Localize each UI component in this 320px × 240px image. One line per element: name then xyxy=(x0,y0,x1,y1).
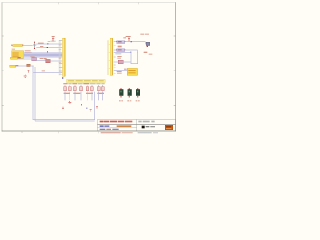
fuse F3 body xyxy=(10,65,16,67)
transistor T1 body xyxy=(119,89,123,95)
net band inner text 1 xyxy=(68,80,74,81)
RN4 pin stub up a xyxy=(97,85,100,87)
fuse F1 pin tick left xyxy=(10,45,13,46)
label Q1 value2 xyxy=(149,53,153,54)
transistor T3 top tick xyxy=(137,88,138,89)
cadsoft text b xyxy=(150,126,155,127)
wire RN1 down b xyxy=(68,91,71,100)
gnd GND4 stem xyxy=(62,107,65,108)
switch S1 stem xyxy=(33,42,36,48)
net names text segment 6 xyxy=(90,83,96,84)
relay K2 stripe 2 xyxy=(128,72,135,73)
ic U1 pin stub 5 xyxy=(59,73,62,76)
supply VCC1 text xyxy=(52,36,55,37)
pin number fleck U2 d xyxy=(108,67,111,70)
label D2 name line1 xyxy=(117,56,122,57)
label F3 value xyxy=(16,65,19,66)
pin label fleck U1 c xyxy=(59,57,62,60)
transistor T2 body xyxy=(128,89,132,95)
wire R2 vertical drop xyxy=(136,49,139,52)
RN3 pin stub up b xyxy=(91,85,94,87)
fuse F1 body xyxy=(12,44,23,46)
label T1 b xyxy=(121,100,123,101)
eagle logo orange box xyxy=(165,125,173,130)
net band inner text 3 xyxy=(84,80,90,81)
gnd GND1 bar xyxy=(27,69,29,72)
wire row B to U1 xyxy=(36,46,62,49)
diode D2 body xyxy=(118,60,123,64)
title block divider v xyxy=(135,119,138,131)
transistor T3 pin dot xyxy=(137,96,138,97)
cadsoft text a xyxy=(145,126,149,127)
docfield text row3 b xyxy=(106,128,111,130)
RN1 pin stub up a xyxy=(64,85,67,87)
junction dot mid bottom 2 xyxy=(86,107,87,108)
label RN4 xyxy=(97,93,104,94)
eagle logo light mark xyxy=(166,127,171,130)
ic U1 pin stub 4 xyxy=(59,70,62,73)
frame tick top 2 xyxy=(97,2,100,4)
wire U2 to R2 xyxy=(114,48,117,51)
label RN2 xyxy=(73,93,80,94)
net band inner text 4 xyxy=(92,80,98,81)
transistor T1 inner xyxy=(120,90,122,92)
wire RN4 down b xyxy=(101,91,104,100)
docfield orange text row2 xyxy=(116,125,131,127)
label S1 name xyxy=(38,43,44,44)
wire bus J1-U1 line 2 xyxy=(24,53,63,56)
gnd GND6 bar xyxy=(90,108,92,111)
ic U2 pale bar xyxy=(107,40,108,75)
junction dot bus xyxy=(47,51,48,52)
ic U1 pin stub 1 xyxy=(59,39,62,42)
label K2 pins line2 xyxy=(117,73,122,74)
frame right border xyxy=(174,2,177,131)
net names text segment 5 xyxy=(83,83,89,84)
wire horizontal bottom h2 xyxy=(35,120,95,123)
frame tick top 3 xyxy=(137,2,140,4)
label Q1 value xyxy=(144,52,148,53)
gnd GND5 stem xyxy=(96,107,99,109)
transistor Q1 body xyxy=(146,42,150,46)
wire R2 right xyxy=(125,48,137,51)
label T1 a xyxy=(119,100,121,101)
label J1 net 3 xyxy=(24,53,30,56)
pin name text U1 top xyxy=(51,40,56,43)
supply VCC1 arrowhead xyxy=(52,37,54,40)
subframe text gray b xyxy=(153,132,158,133)
label U2 pin names xyxy=(115,53,121,54)
gnd GND4 bar xyxy=(62,107,64,110)
resistor network RN2 box b xyxy=(79,87,82,91)
pin label fleck U1 d xyxy=(59,61,62,64)
label R1 xyxy=(123,36,126,39)
junction dot row A xyxy=(47,43,48,44)
gnd GND1 stem xyxy=(27,71,30,73)
subframe text red a xyxy=(100,132,120,133)
ic U2 body bar xyxy=(110,38,112,75)
title text red word3 xyxy=(110,121,117,123)
transistor T1 top tick xyxy=(120,88,121,89)
transistor T1 pin dot xyxy=(120,96,121,97)
label T3 a xyxy=(136,100,138,101)
supply VCC2 text xyxy=(126,36,131,37)
net names text segment 8 xyxy=(101,83,104,84)
frame bottom border xyxy=(2,130,176,133)
frame tick top 1 xyxy=(57,2,60,4)
wire bus J1-U1 line 3 xyxy=(24,54,63,57)
frame tick left 3 xyxy=(2,104,4,107)
net names text segment 3 xyxy=(72,83,77,84)
ic U2 pin stub extra 2 xyxy=(114,56,116,59)
RN2 pin stub up a xyxy=(74,85,77,87)
switch S1 pin dot bottom xyxy=(34,48,35,49)
wire vertical x137 xyxy=(136,52,139,64)
resistor network RN3 box b xyxy=(90,87,93,91)
wire F1 to S1 xyxy=(23,44,33,47)
frame tick bottom 2 xyxy=(21,131,24,133)
resistor network RN3 box a xyxy=(86,87,89,91)
net highlight band xyxy=(66,79,105,82)
ic U2 pin stub extra 1 xyxy=(114,44,116,47)
pin label fleck U1 b xyxy=(59,48,62,51)
subframe text red b xyxy=(121,132,132,133)
relay K2 body xyxy=(127,68,137,75)
net names text segment 1 xyxy=(63,83,68,84)
RN3 pin stub up a xyxy=(86,85,89,87)
title right top text c xyxy=(151,121,154,123)
resistor R2 inner text xyxy=(118,49,122,50)
fuse F2 body xyxy=(10,57,17,60)
connector J1 pin stripe 4 xyxy=(12,55,18,58)
label T2 b xyxy=(129,100,131,101)
wire D2 right xyxy=(123,60,131,63)
resistor R2 pin tick left xyxy=(115,49,118,50)
wire F3 to L1 xyxy=(16,65,27,68)
junction dot mid bottom xyxy=(81,104,82,105)
label under bus xyxy=(39,58,43,59)
supply VCC1 stem xyxy=(52,37,55,41)
eagle logo dark mark xyxy=(166,126,171,127)
resistor R2 pin tick right xyxy=(124,49,127,50)
label K1 name xyxy=(30,56,34,57)
ic U1 pin stub 3 xyxy=(59,66,62,69)
label T2 a xyxy=(127,100,129,101)
resistor network RN2 box a xyxy=(73,87,76,91)
frame tick left 1 xyxy=(2,35,4,38)
gnd GND3 stem xyxy=(68,101,71,102)
net names text segment 2 xyxy=(68,83,71,84)
wire net corner upper xyxy=(114,51,131,54)
wire R1 to Q1 xyxy=(125,40,145,43)
docfield blue text row3 c xyxy=(112,128,118,130)
label K2 xyxy=(124,69,127,70)
resistor network RN1 box b xyxy=(68,87,71,91)
label J1 name xyxy=(12,48,15,51)
wire RN3 down a xyxy=(86,91,89,100)
label S1 value xyxy=(40,46,43,47)
wire horizontal bottom h1 xyxy=(33,118,95,121)
wire vertical riser to RN3 xyxy=(93,92,96,120)
label J1 net 1 xyxy=(24,49,30,52)
junction dot VCC2 xyxy=(131,41,132,42)
wire vertical long v2 xyxy=(34,67,37,121)
label Q1 part b xyxy=(145,33,149,34)
transistor Q1 drop wire xyxy=(144,42,147,45)
pin number fleck U2 c xyxy=(108,59,111,62)
frame top border xyxy=(2,1,176,4)
wire RN4 down a xyxy=(97,91,100,100)
junction dot row B xyxy=(47,47,48,48)
cadsoft black logo box xyxy=(142,126,145,129)
connector J1 pin stripe 1 xyxy=(12,51,18,54)
frame tick left 2 xyxy=(2,69,4,72)
transistor Q1 pin dot xyxy=(147,46,148,47)
wire vertical long v1 xyxy=(32,66,35,120)
supply VCC2 stem xyxy=(128,37,131,41)
frame tick bottom 3 xyxy=(97,131,100,133)
connector J1 body xyxy=(11,51,23,59)
wire RN2 down a xyxy=(74,91,77,100)
label D1 name xyxy=(44,58,47,59)
component K1 body xyxy=(31,58,36,61)
pin label fleck U1 a xyxy=(59,44,62,47)
switch S1 bar xyxy=(33,44,36,47)
wire D1 to U1 xyxy=(50,60,62,63)
frame tick right 1 xyxy=(174,35,176,38)
frame tick right 3 xyxy=(174,104,176,107)
wire U2 to K2 xyxy=(114,69,127,72)
title text red word5 xyxy=(125,121,132,123)
RN1 pin stub up b xyxy=(68,85,71,87)
resistor R1 inner text xyxy=(118,41,122,42)
wire vertical x131 xyxy=(130,52,133,63)
resistor R1 pin tick left xyxy=(115,41,118,42)
net names text segment 4 xyxy=(78,83,83,84)
net band inner text 5 xyxy=(99,80,104,81)
wire bus J1-U1 line 4 xyxy=(24,56,63,59)
net names text segment 7 xyxy=(96,83,100,84)
ic U2 pin stub extra 5 xyxy=(114,66,116,69)
inductor L1 body xyxy=(26,64,30,67)
gnd GND2 stem xyxy=(24,74,27,75)
title block divider h xyxy=(97,123,175,126)
resistor R2 body xyxy=(117,49,125,52)
connector J1 pin stripe 2 xyxy=(12,52,18,55)
ic U1 pin stub 2 xyxy=(59,62,62,65)
wire F2 to K1 xyxy=(17,57,31,60)
gnd GND5 bar xyxy=(96,105,98,108)
pin number fleck U2 b xyxy=(108,51,111,54)
label net on lower wire xyxy=(41,70,44,71)
docfield blue text row3 a xyxy=(100,128,106,130)
junction dot net corner xyxy=(130,52,131,53)
title block divider h left xyxy=(97,127,136,129)
ic U1 pin band xyxy=(59,40,61,75)
resistor network RN4 box a xyxy=(97,87,100,91)
title text red word1 xyxy=(100,121,103,123)
gnd GND2 bar xyxy=(24,75,27,78)
gnd GND2 bar2 xyxy=(24,76,25,79)
frame tick bottom 1 xyxy=(57,131,60,133)
wire U2 to R1 xyxy=(114,40,117,43)
title text red word2 xyxy=(104,121,109,123)
connector J1 pin stripe 3 xyxy=(12,54,18,57)
ic U2 pin stub extra 4 xyxy=(114,72,116,75)
wire K1 to D1 xyxy=(36,59,46,62)
gnd GND3 bar2 xyxy=(69,102,71,105)
label Q1 part a xyxy=(140,33,144,34)
docfield blue text row2 b xyxy=(104,125,109,127)
switch S1 pin dot top xyxy=(34,42,35,43)
transistor T2 pin dot xyxy=(129,96,130,97)
net band inner text 2 xyxy=(75,80,82,81)
label J1 net 4 xyxy=(24,54,31,57)
label F2 value xyxy=(18,57,21,58)
wire bus underlay xyxy=(24,52,63,57)
wire RN3 down b xyxy=(91,91,94,100)
label T3 b xyxy=(138,100,140,101)
wire L1 to corner xyxy=(30,65,34,68)
label D2 name line2 xyxy=(117,57,121,60)
label K2 pins line1 xyxy=(117,71,122,72)
transistor T3 inner xyxy=(137,90,139,92)
label RN1 xyxy=(63,93,70,94)
label R1 value xyxy=(118,46,122,48)
resistor R1 pin tick right xyxy=(124,41,127,42)
wire bus J1-U1 line 1 xyxy=(24,51,63,54)
label RN3 xyxy=(86,93,93,94)
wire S1 to U1 row A xyxy=(36,43,62,46)
resistor network RN1 box a xyxy=(63,87,66,91)
wire RN2 down b xyxy=(80,91,83,100)
label J1 net 2 xyxy=(24,51,31,54)
ic U2 pin stub extra 3 xyxy=(114,64,116,67)
junction dot U1 bottom xyxy=(62,77,63,78)
supply VCC2 arrowhead xyxy=(128,37,130,40)
transistor T2 inner xyxy=(128,90,130,92)
title text red word4 xyxy=(118,121,124,123)
relay K2 stripe 1 xyxy=(128,70,135,71)
pin number fleck U2 a xyxy=(108,43,111,46)
transistor T3 body xyxy=(136,89,140,95)
RN4 pin stub up b xyxy=(101,85,104,87)
fuse F1 pin tick right xyxy=(21,45,24,46)
frame left border xyxy=(1,2,4,131)
label net row A xyxy=(48,40,50,43)
wire U2 to D2 xyxy=(114,60,119,63)
title block outline xyxy=(97,119,175,131)
wire RN1 down a xyxy=(64,91,67,100)
resistor R1 body xyxy=(117,41,125,44)
resistor network RN4 box b xyxy=(101,87,104,91)
diode D1 body xyxy=(46,59,51,62)
ic U1 body bar xyxy=(62,38,65,76)
wire elbow bottom xyxy=(131,62,138,65)
gnd GND6 stem xyxy=(89,110,92,112)
wire U1 lower pin row xyxy=(33,71,62,74)
docfield blue text row2 a xyxy=(100,125,104,127)
subframe text gray a xyxy=(137,132,151,133)
title right top text b xyxy=(143,121,150,123)
frame tick right 2 xyxy=(174,69,176,72)
gnd GND3 bar1 xyxy=(68,101,71,104)
transistor T2 top tick xyxy=(129,88,130,89)
title right top text a xyxy=(138,121,141,123)
RN2 pin stub up b xyxy=(80,85,83,87)
